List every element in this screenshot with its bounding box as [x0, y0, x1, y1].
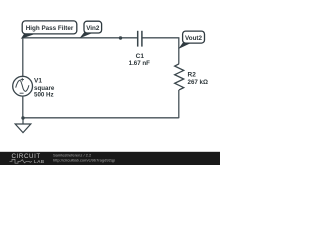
flag Vout2 tail — [178, 42, 191, 49]
footer logo waveform — [10, 159, 32, 163]
resistor R2 zigzag — [175, 64, 184, 90]
svg-text:R2: R2 — [188, 71, 197, 78]
svg-text:V1: V1 — [34, 78, 42, 85]
ground junction dot — [21, 116, 24, 119]
footer bar — [0, 152, 220, 165]
svg-text:Vout2: Vout2 — [185, 35, 203, 42]
wire top right of C1 — [142, 37, 179, 39]
V1 plus sign — [21, 78, 25, 82]
svg-text:LAB: LAB — [34, 159, 45, 164]
flag High Pass Filter box — [22, 21, 77, 34]
V1 sine wave — [16, 80, 29, 91]
wire right lower — [178, 90, 180, 118]
ground stem — [22, 118, 24, 124]
wire top: node Vin2 — [23, 37, 137, 39]
wire left lower — [22, 96, 24, 118]
svg-text:High Pass Filter: High Pass Filter — [26, 25, 74, 32]
capacitor C1 — [138, 31, 142, 47]
svg-text:267 kΩ: 267 kΩ — [188, 79, 208, 86]
svg-text:500 Hz: 500 Hz — [34, 92, 54, 99]
flag High Pass Filter tail — [21, 33, 36, 39]
voltage source V1 circle — [13, 76, 33, 96]
wire bottom — [23, 117, 179, 119]
V1 minus sign — [20, 92, 24, 94]
wire left upper — [22, 38, 24, 77]
flag Vout2 box — [183, 31, 205, 43]
svg-text:http://circuitlab.com/c/9b7rag: http://circuitlab.com/c/9b7ragd92qp — [53, 158, 116, 163]
svg-text:1.67 nF: 1.67 nF — [129, 60, 151, 67]
wire right upper — [178, 38, 180, 64]
flag Vin2 tail — [79, 32, 93, 39]
svg-text:Vin2: Vin2 — [86, 25, 100, 32]
node junction dot on Vin2 wire — [119, 36, 122, 39]
flag Vin2 box — [84, 21, 102, 33]
ground triangle — [15, 124, 31, 133]
